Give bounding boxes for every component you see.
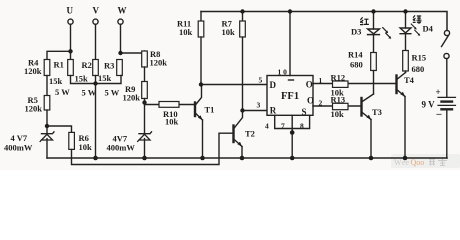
svg-text:10k: 10k: [179, 27, 193, 37]
svg-text:R1: R1: [54, 60, 64, 70]
wire R14 to T3 collector: [373, 71, 375, 95]
svg-text:+: +: [436, 87, 441, 97]
node T1 collector: [199, 82, 203, 86]
wire R4-R5 link: [46, 76, 48, 96]
terminal W: [118, 19, 123, 24]
svg-text:U: U: [67, 6, 74, 16]
resistor R13: [333, 103, 349, 109]
wire FF1 pin1 to T4 base: [313, 83, 397, 85]
label green char: [413, 15, 422, 24]
svg-text:D4: D4: [423, 24, 434, 34]
label red char: [360, 17, 369, 24]
zener D2: [138, 132, 152, 142]
transistor T2: [234, 111, 243, 159]
wire R7 down: [242, 37, 244, 111]
svg-text:T3: T3: [372, 107, 382, 117]
bottom rail: [47, 157, 447, 159]
node rail zener2: [142, 156, 147, 161]
terminal V: [93, 19, 98, 24]
node rail R7: [240, 9, 244, 13]
node rail V: [93, 156, 98, 161]
wire common node down to rail: [95, 84, 97, 159]
wire R15 to T4 collector: [405, 71, 407, 73]
svg-text:4: 4: [265, 122, 269, 131]
node rail T1: [200, 156, 205, 161]
svg-text:5: 5: [259, 76, 263, 85]
node rail D3: [371, 9, 375, 13]
svg-text:T2: T2: [245, 129, 255, 139]
resistor R4: [44, 60, 50, 76]
wire FF1 pin2 to T3 base: [313, 105, 362, 107]
svg-text:400mW: 400mW: [107, 143, 136, 153]
resistor R12: [333, 81, 349, 87]
svg-text:7: 7: [281, 122, 285, 131]
resistor R8: [142, 51, 148, 67]
node R7-T2: [240, 108, 244, 112]
wire node to R6: [47, 126, 72, 132]
svg-text:–: –: [436, 109, 443, 120]
wire switch to battery: [446, 59, 448, 97]
svg-text:R15: R15: [412, 53, 427, 63]
wire R5 to zener node: [46, 110, 48, 133]
wire R11 down to node: [200, 37, 202, 85]
node rail T3: [369, 156, 374, 161]
svg-text:680: 680: [412, 64, 425, 74]
resistor R9: [142, 82, 148, 99]
IC FF1 box: [267, 76, 313, 116]
wire R9 to zener2: [144, 99, 146, 134]
wire U node to R4: [47, 51, 71, 60]
svg-text:5 W: 5 W: [105, 88, 120, 98]
node rail pin10: [288, 9, 292, 13]
svg-text:10k: 10k: [222, 27, 236, 37]
watermark patch: [391, 154, 460, 168]
pin10 tick: [289, 79, 294, 81]
resistor R5: [44, 96, 50, 111]
svg-text:R: R: [270, 106, 277, 116]
node zener1: [45, 124, 49, 128]
wire R1 lead: [70, 51, 72, 60]
node U junction: [68, 49, 72, 53]
zener D1: [40, 132, 54, 142]
wire zener1 to rail: [46, 139, 48, 158]
svg-text:15k: 15k: [75, 74, 89, 84]
wire common bus: [71, 76, 122, 84]
svg-text:1: 1: [319, 76, 323, 85]
wire W node to R8: [121, 51, 145, 53]
node rail D4: [403, 9, 407, 13]
switch S: [442, 30, 450, 58]
svg-text:15k: 15k: [49, 76, 63, 86]
svg-text:W: W: [118, 6, 127, 16]
svg-text:680: 680: [350, 60, 363, 70]
resistor R15: [403, 51, 409, 72]
resistor R11: [198, 21, 204, 37]
svg-text:R2: R2: [82, 60, 92, 70]
svg-text:120k: 120k: [150, 58, 168, 68]
resistor R1: [68, 60, 74, 76]
svg-text:8: 8: [300, 122, 304, 131]
resistor R7: [242, 12, 244, 22]
FF1 bottom stubs: [275, 115, 310, 128]
svg-text:10k: 10k: [165, 117, 179, 127]
LED D4: [400, 12, 420, 51]
svg-text:120k: 120k: [24, 66, 42, 76]
svg-text:V: V: [93, 6, 100, 16]
svg-text:R14: R14: [348, 50, 363, 60]
wire node to FF1 D: [201, 84, 267, 86]
svg-text:9 V: 9 V: [422, 100, 436, 110]
wire FF1 pin10: [289, 12, 291, 76]
svg-text:5 W: 5 W: [82, 88, 97, 98]
svg-text:O: O: [307, 96, 314, 106]
resistor R3: [117, 60, 123, 76]
svg-text:15k: 15k: [98, 73, 112, 83]
wire R8-R9 link: [144, 67, 146, 82]
wire to FF1 R pin: [243, 110, 268, 112]
svg-text:FF1: FF1: [281, 91, 299, 102]
svg-text:R3: R3: [104, 61, 114, 71]
node rail T2: [240, 156, 245, 161]
svg-text:2: 2: [319, 99, 323, 108]
node bus junction: [93, 81, 97, 85]
resistor R14: [371, 53, 377, 71]
node stub join: [290, 130, 295, 135]
wire battery to rail: [446, 109, 448, 158]
wire R11 top: [200, 12, 202, 22]
svg-text:120k: 120k: [123, 93, 141, 103]
node rail FF1: [290, 156, 295, 161]
transistor T3: [362, 94, 374, 158]
svg-text:D: D: [270, 80, 277, 90]
svg-text:400mW: 400mW: [4, 143, 33, 153]
wire R10 row: [145, 103, 196, 105]
wire U down: [70, 24, 72, 51]
svg-text:120k: 120k: [25, 104, 43, 114]
resistor R6: [69, 132, 75, 149]
transistor T4: [397, 73, 406, 159]
wire V down: [95, 24, 97, 60]
svg-text:D3: D3: [351, 27, 361, 37]
svg-text:5 W: 5 W: [55, 87, 70, 97]
svg-text:R12: R12: [331, 73, 346, 83]
svg-text:10k: 10k: [331, 109, 345, 119]
top rail: [201, 12, 447, 31]
wire R2 to bus: [95, 76, 97, 84]
wire R6 to sense rail: [72, 133, 234, 164]
svg-text:Qoo: Qoo: [411, 158, 425, 167]
svg-text:T1: T1: [205, 105, 215, 115]
wire zener2 to rail: [144, 139, 146, 158]
svg-text:W: W: [394, 158, 402, 167]
transistor T1: [195, 85, 203, 159]
svg-text:4 V7: 4 V7: [11, 133, 28, 143]
battery B1 9V: [438, 97, 456, 109]
svg-text:10k: 10k: [79, 142, 93, 152]
svg-text:T4: T4: [404, 75, 415, 85]
svg-text:O: O: [306, 80, 313, 90]
svg-text:S: S: [302, 107, 307, 117]
svg-text:1 0: 1 0: [278, 68, 288, 77]
terminal U: [68, 19, 73, 24]
node rail T4: [403, 156, 408, 161]
LED D3: [368, 12, 392, 53]
resistor R10: [159, 102, 179, 108]
wire W down: [120, 24, 122, 53]
resistor R2: [93, 60, 99, 76]
svg-text:3: 3: [257, 101, 261, 110]
svg-text:R13: R13: [331, 95, 346, 105]
node R9-R10: [142, 100, 146, 104]
node W junction: [118, 51, 122, 55]
